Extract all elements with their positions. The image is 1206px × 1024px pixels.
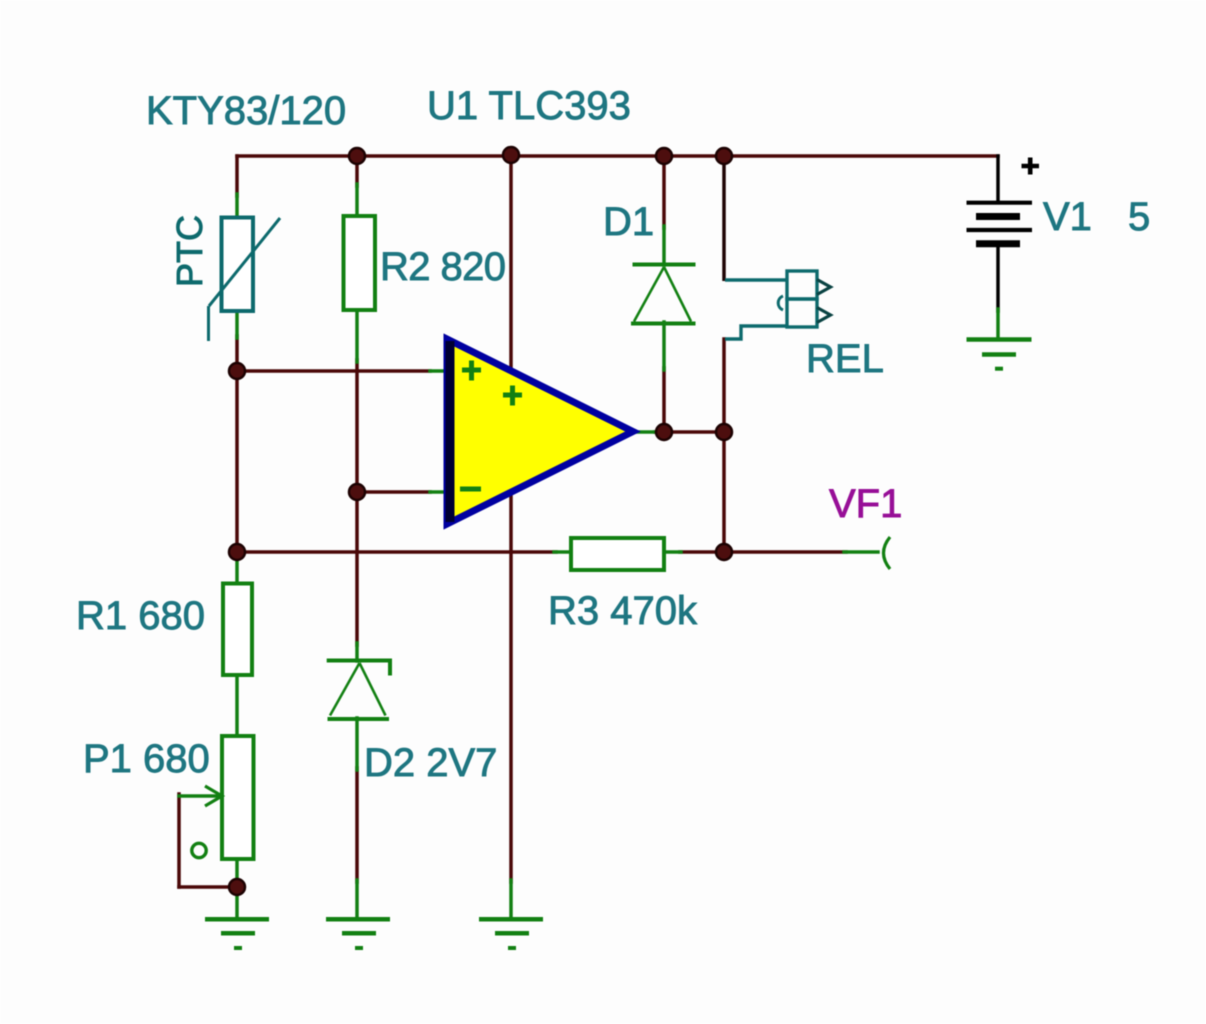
svg-text:D2 2V7: D2 2V7 [364, 741, 497, 785]
svg-text:P1 680: P1 680 [83, 737, 210, 781]
svg-text:REL: REL [806, 337, 884, 381]
svg-text:D1: D1 [603, 200, 654, 244]
svg-text:PTC: PTC [169, 215, 210, 287]
svg-text:5: 5 [1128, 195, 1150, 239]
svg-text:U1 TLC393: U1 TLC393 [427, 84, 631, 128]
svg-text:KTY83/120: KTY83/120 [146, 89, 346, 133]
svg-text:R1 680: R1 680 [76, 594, 205, 638]
svg-text:R2 820: R2 820 [380, 245, 505, 289]
svg-text:VF1: VF1 [829, 482, 902, 526]
svg-text:V1: V1 [1043, 195, 1092, 239]
svg-text:R3 470k: R3 470k [548, 589, 698, 633]
